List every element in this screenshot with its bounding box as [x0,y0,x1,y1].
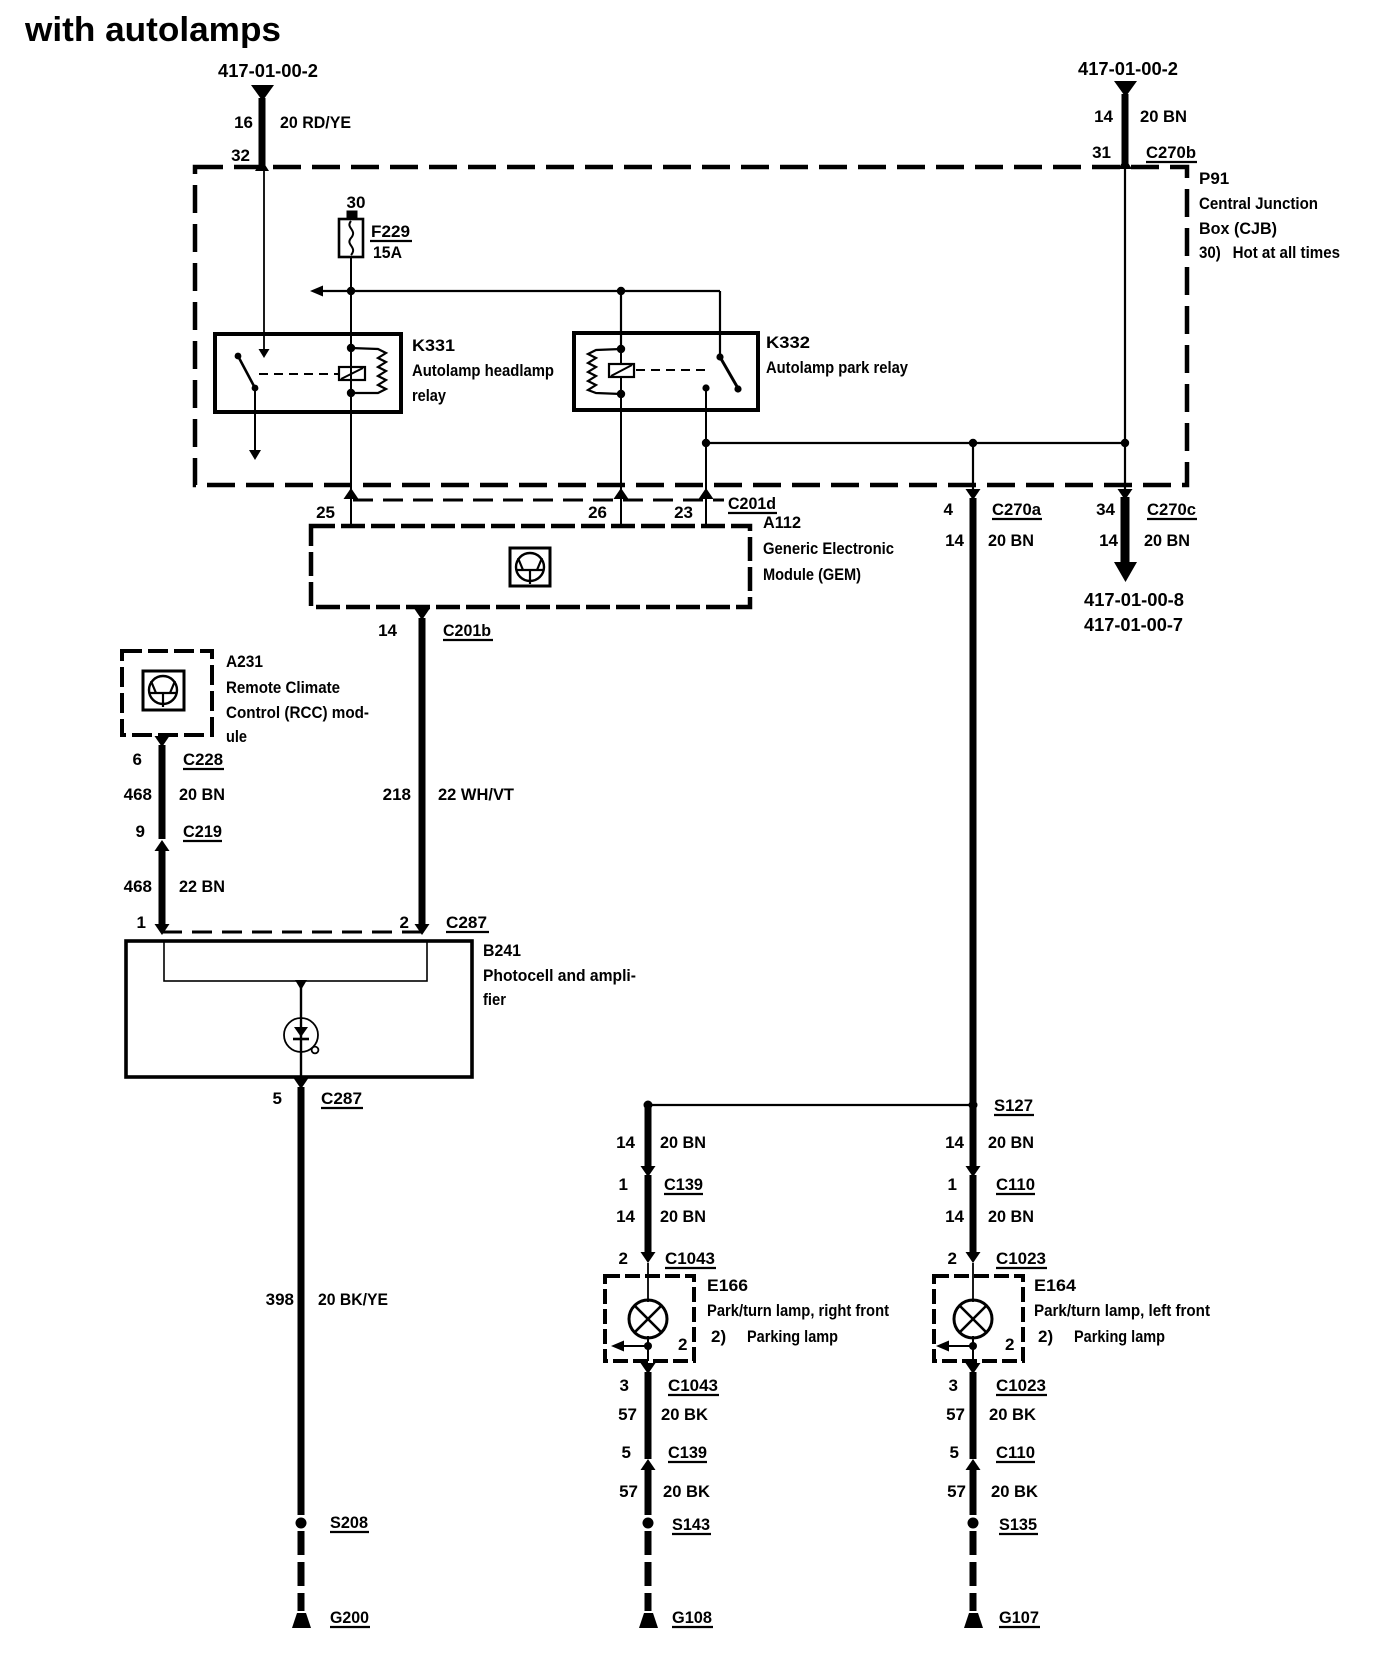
svg-text:E164: E164 [1034,1276,1077,1295]
svg-text:C110: C110 [996,1175,1035,1194]
svg-text:20 BN: 20 BN [1140,107,1187,126]
wire 20 BK/YE to S208 (thick) [298,1087,305,1515]
pin 26 connector arrow [614,488,629,499]
svg-text:C1023: C1023 [996,1376,1046,1395]
pin 2 connector arrow C1023 [966,1252,981,1263]
wire bus from fuse junction (left arrow) [310,286,720,297]
svg-text:20 BN: 20 BN [660,1207,706,1226]
power feed arrow (right) [1114,81,1137,97]
junction at fuse wire [347,287,355,295]
wire down to pin 4 [972,443,974,490]
pin 14 connector arrow (C201b) [415,609,430,620]
svg-text:A231: A231 [226,652,263,671]
svg-text:Parking lamp: Parking lamp [747,1327,838,1346]
K331 switch output stub [249,388,261,460]
wire 20 BN RCC to C219 (thick) [159,745,166,839]
remote climate control module A231 (dashed box) [122,651,212,735]
svg-text:31: 31 [1092,143,1111,162]
wire pin 25 to GEM [350,499,352,526]
svg-text:15A: 15A [373,243,402,262]
svg-text:C1023: C1023 [996,1249,1046,1268]
lamp bulb E166 symbol [629,1300,667,1338]
svg-text:relay: relay [412,386,446,405]
svg-text:B241: B241 [483,941,521,960]
wire through K332 (coil) [620,349,622,410]
svg-text:16: 16 [234,113,253,132]
arrow from input bar [295,980,307,990]
svg-text:218: 218 [383,785,411,804]
svg-text:C1043: C1043 [665,1249,715,1268]
label 2) Parking lamp (E164) [1038,1327,1165,1346]
K331 armature [339,367,365,380]
svg-text:5: 5 [622,1443,631,1462]
svg-text:S143: S143 [672,1515,710,1534]
svg-text:2): 2) [711,1327,726,1346]
svg-text:14: 14 [378,621,397,640]
svg-text:C1043: C1043 [668,1376,718,1395]
svg-text:S127: S127 [994,1096,1033,1115]
wire C139 to S143 (thick) [645,1470,652,1515]
svg-text:468: 468 [124,785,152,804]
wire C110 to C1023 (thick) [970,1175,977,1254]
svg-text:Box (CJB): Box (CJB) [1199,219,1277,238]
svg-text:20 BK: 20 BK [991,1482,1039,1501]
svg-text:30) Hot at all times: 30) Hot at all times [1199,243,1340,262]
svg-text:Control (RCC) mod-: Control (RCC) mod- [226,703,369,722]
svg-text:26: 26 [588,503,607,522]
svg-text:E166: E166 [707,1276,748,1295]
svg-text:Central Junction: Central Junction [1199,194,1318,213]
power feed arrow (left) [251,85,274,101]
photocell and amplifier B241 box [126,941,472,1077]
pin 34 connector arrow (C270c) [1118,489,1133,500]
wire 20 BN feed (thick) [1122,94,1129,166]
pin 1 connector arrow C139 [641,1166,656,1177]
wire S143 to ground (dashed thick) [645,1531,652,1611]
svg-text:57: 57 [618,1405,637,1424]
svg-text:Park/turn lamp, left front: Park/turn lamp, left front [1034,1301,1210,1320]
svg-text:417-01-00-2: 417-01-00-2 [1078,59,1178,79]
pin 9 connector arrow (C219) [155,840,170,851]
svg-text:2): 2) [1038,1327,1053,1346]
svg-text:5: 5 [950,1443,959,1462]
wire C270b feed down inside CJB [1124,166,1126,443]
svg-text:Parking lamp: Parking lamp [1074,1327,1165,1346]
pin 2 connector arrow C1043 [641,1252,656,1263]
svg-text:C270c: C270c [1147,500,1196,519]
svg-text:with autolamps: with autolamps [24,11,281,49]
off-page arrow 20 BN down (thick) [1114,497,1137,582]
pin 31 connector arrow [1118,158,1132,169]
svg-text:14: 14 [945,531,964,550]
wire 20 RD/YE feed (thick) [259,98,266,168]
svg-text:C139: C139 [664,1175,703,1194]
svg-text:20 BN: 20 BN [1144,531,1190,550]
wire K332 switch to pin 23 [705,410,707,490]
pin 5 connector arrow C110 [966,1459,981,1470]
svg-text:C110: C110 [996,1443,1035,1462]
pin 6 connector arrow (C228) [155,736,170,747]
svg-text:Photocell and ampli-: Photocell and ampli- [483,966,636,985]
svg-text:G108: G108 [672,1608,712,1627]
svg-text:14: 14 [1094,107,1113,126]
svg-text:Module (GEM): Module (GEM) [763,565,861,584]
wire pin 26 to GEM [620,499,622,526]
svg-text:C228: C228 [183,750,223,769]
svg-text:K331: K331 [412,336,455,355]
junction in lamp E164 [969,1342,977,1350]
wire K331 to pin 25 [350,412,352,490]
svg-text:C270a: C270a [992,500,1042,519]
splice S143 [643,1518,654,1529]
junction dot left (S127) [644,1101,653,1110]
svg-text:Autolamp park relay: Autolamp park relay [766,358,908,377]
lamp E166 internal arrow stub [611,1341,648,1352]
wire down to pin 34 [1124,443,1126,490]
svg-text:20 BN: 20 BN [660,1133,706,1152]
svg-text:G107: G107 [999,1608,1039,1627]
photocell symbol [284,1018,318,1053]
junction at C270a drop [969,439,977,447]
svg-text:G200: G200 [330,1608,369,1627]
svg-text:Autolamp headlamp: Autolamp headlamp [412,361,554,380]
svg-text:398: 398 [266,1290,294,1309]
svg-text:C201b: C201b [443,621,491,640]
wire feed into K331 switch [259,169,270,358]
wire S127 to C110 (thick, right) [970,1105,977,1168]
K331 actuator dashed link [259,373,338,375]
svg-text:14: 14 [616,1207,635,1226]
connector C201d dashed line [353,499,724,502]
wire C139 to C1043 (thick) [645,1175,652,1254]
wire through K331 (coil feed) [350,335,352,412]
K332 actuator dashed link [636,369,705,371]
lamp bulb E164 symbol [954,1300,992,1338]
svg-text:C287: C287 [446,913,487,932]
K332 coil [588,345,625,398]
wire 20 BN to S127 (thick) [970,498,977,1105]
svg-text:9: 9 [136,822,145,841]
svg-text:22 BN: 22 BN [179,877,225,896]
park/turn lamp E166 dashed box [605,1276,694,1361]
svg-text:20 BN: 20 BN [179,785,225,804]
park/turn lamp E164 dashed box [934,1276,1023,1361]
svg-text:S208: S208 [330,1513,368,1532]
wire 22 BN C219 to photocell (thick) [159,850,166,926]
svg-text:2: 2 [1005,1335,1014,1354]
svg-text:1: 1 [948,1175,957,1194]
pin 2 connector arrow [415,924,430,935]
svg-text:4: 4 [944,500,954,519]
K331 coil [347,344,386,397]
splice bus S127 line [648,1104,973,1106]
wire C1023 to C110 (thick ground leg) [970,1372,977,1459]
relay K332 box [574,333,758,410]
wire into lamp E166 [647,1263,649,1302]
svg-text:22 WH/VT: 22 WH/VT [438,785,515,804]
svg-text:1: 1 [619,1175,628,1194]
svg-text:14: 14 [1099,531,1118,550]
ground G107 symbol [964,1613,983,1628]
svg-text:Park/turn lamp, right front: Park/turn lamp, right front [707,1301,889,1320]
svg-text:P91: P91 [1199,169,1229,188]
svg-text:417-01-00-2: 417-01-00-2 [218,61,318,81]
junction at K332 coil branch [617,287,625,295]
svg-text:30: 30 [347,193,366,212]
generic electronic module A112 (dashed box) [311,526,750,607]
svg-text:K332: K332 [766,333,810,352]
wire C110 to S135 (thick) [970,1470,977,1515]
svg-text:C219: C219 [183,822,222,841]
svg-text:14: 14 [616,1133,635,1152]
ground G108 symbol [639,1613,658,1628]
connector C287 dashed line [162,931,428,934]
svg-text:57: 57 [619,1482,638,1501]
svg-text:S135: S135 [999,1515,1037,1534]
svg-text:C287: C287 [321,1089,362,1108]
wire C1043 to C139 (thick ground leg) [645,1372,652,1459]
wire lamp to pin 3 [647,1336,649,1361]
wire 22 WH/VT GEM to photocell (thick) [419,618,426,926]
svg-text:20 BN: 20 BN [988,1207,1034,1226]
svg-text:34: 34 [1096,500,1115,519]
svg-text:A112: A112 [763,513,801,532]
svg-text:14: 14 [945,1133,964,1152]
splice S208 [296,1518,307,1529]
pin 25 connector arrow [344,488,359,499]
svg-text:25: 25 [316,503,335,522]
svg-text:2: 2 [619,1249,628,1268]
GEM module icon [510,548,550,586]
svg-text:23: 23 [674,503,693,522]
lamp E164 internal arrow stub [936,1341,973,1352]
fuse F229 [339,211,363,257]
svg-text:2: 2 [948,1249,957,1268]
wire input bar through photocell to pin 5 [300,981,302,1077]
junction at C270b drop [1121,439,1129,447]
label 2) Parking lamp (E166) [711,1327,838,1346]
pin 5 connector arrow C139 [641,1459,656,1470]
RCC module icon [143,671,184,710]
svg-text:20 BN: 20 BN [988,531,1034,550]
svg-text:57: 57 [947,1482,966,1501]
K331 switch blade [235,353,259,392]
svg-text:14: 14 [945,1207,964,1226]
svg-text:57: 57 [946,1405,965,1424]
junction at K332 switch drop [702,439,710,447]
svg-text:417-01-00-7: 417-01-00-7 [1084,615,1183,635]
pin 32 connector arrow [255,160,269,171]
svg-text:fier: fier [483,990,506,1009]
relay K331 box [215,334,401,412]
B241 inner input bar [164,941,427,981]
pin 1 connector arrow [155,924,170,935]
svg-text:3: 3 [620,1376,629,1395]
junction in lamp E166 [644,1342,652,1350]
svg-text:6: 6 [133,750,142,769]
svg-text:2: 2 [678,1335,687,1354]
svg-text:C270b: C270b [1146,143,1196,162]
ground G200 symbol [292,1613,311,1628]
junction dot right (S127) [969,1101,978,1110]
svg-text:20 BK/YE: 20 BK/YE [318,1290,388,1309]
svg-text:1: 1 [137,913,146,932]
svg-text:20 BK: 20 BK [989,1405,1037,1424]
svg-text:Remote Climate: Remote Climate [226,678,340,697]
K332 switch output contact [702,384,709,410]
svg-text:20 BN: 20 BN [988,1133,1034,1152]
svg-text:20 RD/YE: 20 RD/YE [280,113,351,132]
svg-text:F229: F229 [371,222,410,241]
pin 23 connector arrow [699,488,714,499]
svg-text:5: 5 [273,1089,282,1108]
wire K332 coil to pin 26 [620,410,622,490]
svg-text:468: 468 [124,877,152,896]
wire S135 to ground (dashed thick) [970,1531,977,1611]
svg-text:32: 32 [231,146,250,165]
wire lamp E164 to pin 3 [972,1336,974,1361]
wire S127 to C139 (thick, left) [645,1105,652,1168]
wire bus to park lamps (y=443) [706,442,1125,444]
wire down to K332 coil [620,291,622,349]
svg-text:20 BK: 20 BK [661,1405,709,1424]
wire into lamp E164 [972,1263,974,1302]
pin 3 connector arrow C1023 [966,1363,981,1374]
pin 5 connector arrow (C287 bottom) [294,1078,309,1089]
svg-text:C201d: C201d [728,494,776,513]
wire S208 to ground (dashed thick) [298,1531,305,1611]
svg-text:C139: C139 [668,1443,707,1462]
central junction box P91 (dashed outline) [195,167,1187,485]
svg-text:20 BK: 20 BK [663,1482,711,1501]
svg-text:ule: ule [226,727,247,746]
svg-text:Generic Electronic: Generic Electronic [763,539,894,558]
pin 3 connector arrow C1043 [641,1363,656,1374]
wire fuse to K331 [350,257,352,335]
wire down to K332 switch [719,291,721,357]
wire pin 23 to GEM [705,499,707,526]
splice S135 [968,1518,979,1529]
svg-text:2: 2 [400,913,409,932]
pin 4 connector arrow (C270a) [966,489,981,500]
svg-text:417-01-00-8: 417-01-00-8 [1084,590,1184,610]
pin 1 connector arrow C110 [966,1166,981,1177]
K332 switch blade [716,353,741,392]
svg-text:3: 3 [949,1376,958,1395]
K332 armature [609,364,634,377]
label F229 / 15A [370,222,412,262]
